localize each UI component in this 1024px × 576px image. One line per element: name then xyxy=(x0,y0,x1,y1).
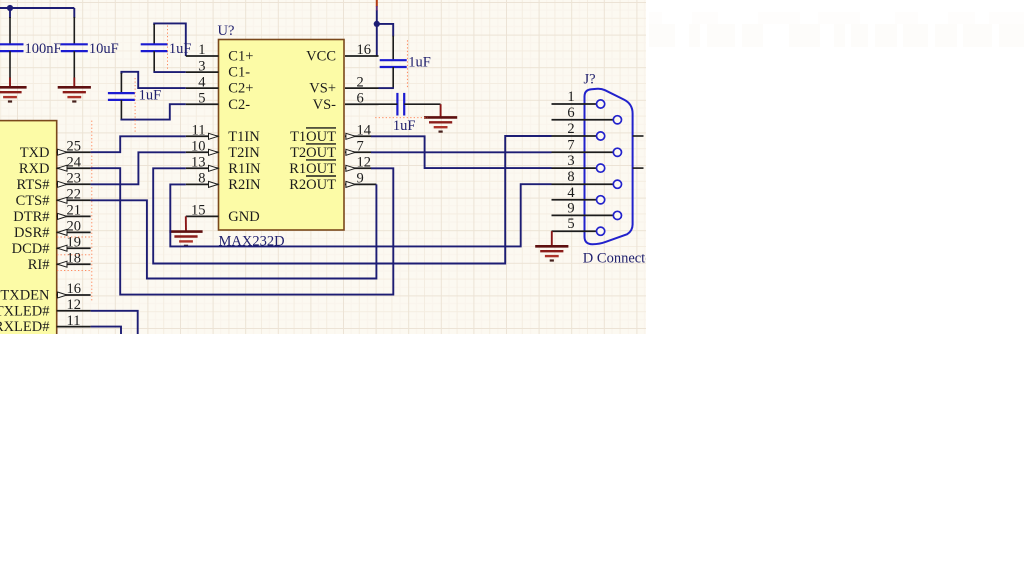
wire R1IN to J pin 2 xyxy=(153,136,551,264)
ground lead J pin 5 xyxy=(551,231,553,246)
pin 10 T2IN line xyxy=(186,151,219,153)
svg-text:1: 1 xyxy=(198,42,205,58)
pin 1 C1+ line xyxy=(186,55,219,57)
pin 16 VCC line xyxy=(345,55,379,57)
svg-text:DCD#: DCD# xyxy=(12,241,50,257)
ground under 10uF xyxy=(58,87,91,101)
J pin 4 line xyxy=(552,199,597,201)
wire VCC vertical xyxy=(376,11,378,24)
svg-text:DSR#: DSR# xyxy=(14,225,49,241)
J pin 3 line xyxy=(552,167,597,169)
overline over OUT of T2OUT xyxy=(306,143,336,145)
svg-text:11: 11 xyxy=(192,123,206,139)
ground lead GND pin xyxy=(185,216,187,231)
svg-text:DTR#: DTR# xyxy=(13,209,49,225)
svg-text:C2+: C2+ xyxy=(228,81,253,97)
ground at J pin 5 xyxy=(535,246,568,260)
J pin 8 line xyxy=(552,183,614,185)
ground lead 100nF xyxy=(9,78,11,88)
pin 14 T1OUT line xyxy=(345,135,371,137)
svg-text:25: 25 xyxy=(67,138,82,154)
input arrow pin 13 xyxy=(209,165,219,171)
input arrow pin 10 xyxy=(209,149,219,155)
output arrow pin 14 xyxy=(346,133,356,139)
output arrow pin 16 xyxy=(58,292,68,298)
svg-text:13: 13 xyxy=(191,155,206,171)
J pin 9 hole xyxy=(613,211,621,219)
connector P? left box body xyxy=(0,121,57,346)
svg-text:2: 2 xyxy=(357,74,364,90)
svg-text:VS+: VS+ xyxy=(309,81,336,97)
svg-text:RI#: RI# xyxy=(28,257,50,273)
svg-text:16: 16 xyxy=(67,281,82,297)
svg-text:1uF: 1uF xyxy=(408,54,431,70)
svg-text:6: 6 xyxy=(567,105,574,121)
wire TXLED# xyxy=(91,311,138,335)
pin 25 TXD line xyxy=(57,151,91,153)
svg-text:12: 12 xyxy=(67,297,82,313)
svg-text:7: 7 xyxy=(357,139,364,155)
J pin 1 line xyxy=(552,103,597,105)
svg-text:7: 7 xyxy=(567,137,574,153)
wire 1uF cap to C2+ xyxy=(121,72,185,88)
svg-text:9: 9 xyxy=(357,171,364,187)
svg-text:3: 3 xyxy=(567,153,574,169)
pin 11 T1IN line xyxy=(186,135,219,137)
J pin 7 hole xyxy=(613,148,621,156)
svg-text:T2IN: T2IN xyxy=(228,145,260,161)
capacitor 1uF (C1) xyxy=(141,44,168,51)
svg-text:5: 5 xyxy=(567,216,574,232)
input arrow pin 24 xyxy=(58,165,68,171)
svg-text:12: 12 xyxy=(357,155,372,171)
input arrow pin 20 xyxy=(58,229,68,235)
pin 13 R1IN line xyxy=(186,167,219,169)
svg-text:T1IN: T1IN xyxy=(228,129,260,145)
pin 16 TXDEN line xyxy=(57,294,91,296)
wire RTS# to T2IN xyxy=(91,152,186,184)
svg-text:100nF: 100nF xyxy=(25,41,62,57)
pin 15 GND line xyxy=(186,215,219,217)
pin lead 100nF bottom xyxy=(9,51,11,78)
svg-text:C1+: C1+ xyxy=(228,49,253,65)
capacitor 1uF (VCC) xyxy=(380,60,407,67)
pin lead 10uF bottom xyxy=(73,51,75,78)
input arrow pin 22 xyxy=(58,197,68,203)
overline over OUT of T1OUT xyxy=(306,127,336,129)
pin 12 R1OUT line xyxy=(345,167,371,169)
capacitor 100nF xyxy=(0,44,24,51)
capacitor 1uF (C2) xyxy=(108,93,135,100)
svg-text:TXDEN: TXDEN xyxy=(0,288,50,304)
wire 10uF top xyxy=(73,8,75,18)
svg-text:10: 10 xyxy=(191,139,206,155)
output arrow pin 12 xyxy=(346,165,356,171)
pin 11 RXLED# line xyxy=(57,326,91,328)
wire 100nF top xyxy=(9,8,11,18)
wire TXD to T1IN xyxy=(91,136,186,152)
svg-text:1uF: 1uF xyxy=(139,87,162,103)
J pin 8 hole xyxy=(613,180,621,188)
svg-text:RXLED#: RXLED# xyxy=(0,319,50,335)
ground under VS- cap xyxy=(424,117,457,131)
svg-text:9: 9 xyxy=(567,200,574,216)
J pin 2 hole xyxy=(597,132,605,140)
ground lead VS- cap xyxy=(440,104,442,117)
svg-text:11: 11 xyxy=(67,313,81,329)
svg-text:T1OUT: T1OUT xyxy=(290,129,336,145)
J pin 5 hole xyxy=(597,227,605,235)
svg-text:8: 8 xyxy=(567,169,574,185)
svg-text:J?: J? xyxy=(584,72,596,88)
J pin 7 line xyxy=(552,151,614,153)
svg-text:18: 18 xyxy=(67,250,82,266)
svg-text:TXD: TXD xyxy=(20,145,50,161)
J pin 2 line xyxy=(552,135,597,137)
svg-text:2: 2 xyxy=(567,121,574,137)
svg-text:16: 16 xyxy=(357,42,372,58)
svg-text:14: 14 xyxy=(357,123,372,139)
dotted marker between pins 19/18 xyxy=(57,254,92,256)
dotted marker at 1uF C1 xyxy=(167,26,169,71)
svg-text:R1OUT: R1OUT xyxy=(289,161,336,177)
svg-text:21: 21 xyxy=(67,203,82,219)
dotted marker at 1uF C2 xyxy=(134,78,136,133)
ground lead 10uF xyxy=(73,78,75,88)
pin 19 DCD# line xyxy=(57,247,91,249)
wire T2OUT to J pin 7 xyxy=(371,151,552,153)
pin 22 CTS# line xyxy=(57,199,91,201)
input arrow pin 11 xyxy=(209,133,219,139)
svg-text:RXD: RXD xyxy=(19,161,50,177)
J pin 6 line xyxy=(552,119,614,121)
pin lead VS- cap right xyxy=(404,103,440,105)
wire 1uF cap to C1+ xyxy=(154,23,186,56)
svg-text:1: 1 xyxy=(567,89,574,105)
svg-text:C1-: C1- xyxy=(228,65,250,81)
J pin 5 line xyxy=(552,230,597,232)
ground under GND pin xyxy=(169,232,202,246)
capacitor 10uF xyxy=(61,44,88,51)
junction VCC node xyxy=(374,21,380,27)
wire RXLED# xyxy=(91,327,121,335)
svg-text:1uF: 1uF xyxy=(393,118,416,134)
pin lead 1uF C1 top xyxy=(153,24,155,44)
output arrow pin 21 xyxy=(58,213,68,219)
pin 7 T2OUT line xyxy=(345,151,371,153)
overline over OUT of R1OUT xyxy=(306,159,336,161)
pin 20 DSR# line xyxy=(57,231,91,233)
dotted marker at 1uF VCC cap xyxy=(406,40,408,88)
wire VCC to 1uF cap top xyxy=(377,24,393,37)
dotted marker above pin 19 xyxy=(57,236,92,238)
dotted marker at 1uF VS- cap xyxy=(375,117,428,119)
pin 9 R2OUT line xyxy=(345,183,376,185)
wire VCC rail top-left xyxy=(0,7,74,9)
pin 6 VS- line xyxy=(345,103,379,105)
junction at 100nF cap xyxy=(7,5,13,11)
svg-text:U?: U? xyxy=(218,23,235,39)
input arrow pin 8 xyxy=(209,181,219,187)
input arrow pin 18 xyxy=(58,261,68,267)
wire RXD to R1OUT xyxy=(91,168,394,294)
svg-text:GND: GND xyxy=(228,209,259,225)
wire 1uF cap to C1- xyxy=(153,71,185,73)
svg-text:5: 5 xyxy=(198,90,205,106)
svg-text:R1IN: R1IN xyxy=(228,161,261,177)
pin 5 C2- line xyxy=(186,103,219,105)
ground under 100nF xyxy=(0,87,27,101)
svg-text:8: 8 xyxy=(198,171,205,187)
output arrow pin 9 xyxy=(346,181,356,187)
svg-text:3: 3 xyxy=(198,58,205,74)
svg-text:VS-: VS- xyxy=(313,97,337,113)
svg-text:4: 4 xyxy=(567,185,575,201)
pin 3 C1- line xyxy=(186,71,219,73)
svg-text:24: 24 xyxy=(67,154,82,170)
output arrow pin 7 xyxy=(346,149,356,155)
output arrow pin 25 xyxy=(58,149,68,155)
pin lead VS- cap left xyxy=(379,103,398,105)
op-amp U? MAX232D body xyxy=(219,40,345,231)
svg-text:RTS#: RTS# xyxy=(17,177,50,193)
svg-text:20: 20 xyxy=(67,219,82,235)
pin 12 TXLED# line xyxy=(57,310,91,312)
pin 8 R2IN line xyxy=(186,183,219,185)
pin 4 C2+ line xyxy=(186,87,219,89)
svg-text:C2-: C2- xyxy=(228,97,250,113)
svg-text:15: 15 xyxy=(191,203,206,219)
wire R2IN to J pin 8 xyxy=(170,184,551,246)
svg-text:R2IN: R2IN xyxy=(228,177,261,193)
wire VCC to pin16 xyxy=(376,24,378,56)
svg-text:VCC: VCC xyxy=(306,49,336,65)
svg-text:6: 6 xyxy=(357,90,364,106)
J pin 4 hole xyxy=(597,196,605,204)
wire 1uF cap to C2- xyxy=(121,104,185,119)
wire stub right of J pin 3 xyxy=(633,167,644,169)
svg-text:4: 4 xyxy=(198,74,206,90)
wire T1OUT to J pin 3 xyxy=(371,136,552,168)
pin 24 RXD line xyxy=(57,167,91,169)
power port VCC stub fade xyxy=(376,6,378,11)
J pin 3 hole xyxy=(597,164,605,172)
pin lead 1uF C1 bottom xyxy=(153,51,155,72)
dotted marker right of box xyxy=(91,121,93,303)
pin 21 DTR# line xyxy=(57,215,91,217)
pin lead 1uF VCC bottom xyxy=(392,67,394,88)
faint ghost band top right xyxy=(649,12,1024,47)
pin 2 VS+ line xyxy=(345,87,379,89)
J pin 9 line xyxy=(552,214,614,216)
pin lead 1uF C2 top xyxy=(120,73,122,93)
overline over OUT of R2OUT xyxy=(306,175,336,177)
pin 23 RTS# line xyxy=(57,183,91,185)
pin lead 1uF C2 bottom xyxy=(120,100,122,120)
pin 18 RI# line xyxy=(57,263,91,265)
wire stub right of J pin 2 xyxy=(633,135,644,137)
wire CTS# to R2OUT xyxy=(91,184,377,278)
svg-text:22: 22 xyxy=(67,187,82,203)
dotted marker below pin 18 xyxy=(57,269,92,271)
svg-text:1uF: 1uF xyxy=(169,41,192,57)
wire 1uF cap to VS+ xyxy=(379,87,394,89)
J pin 6 hole xyxy=(613,116,621,124)
svg-text:CTS#: CTS# xyxy=(16,193,50,209)
J pin 1 hole xyxy=(597,100,605,108)
schematic sheet background xyxy=(0,0,646,334)
svg-text:10uF: 10uF xyxy=(89,41,119,57)
power port VCC stub xyxy=(376,0,378,7)
capacitor 1uF (VS-) xyxy=(397,93,404,116)
pin lead 100nF top xyxy=(9,17,11,44)
svg-text:T2OUT: T2OUT xyxy=(290,145,336,161)
svg-text:23: 23 xyxy=(67,171,82,187)
input arrow pin 19 xyxy=(58,245,68,251)
connector J? DB9 body outline xyxy=(585,89,633,244)
pin lead 10uF top xyxy=(73,17,75,44)
pin lead 1uF VCC top xyxy=(392,36,394,61)
svg-text:R2OUT: R2OUT xyxy=(289,177,336,193)
output arrow pin 23 xyxy=(58,181,68,187)
svg-text:TXLED#: TXLED# xyxy=(0,303,50,319)
